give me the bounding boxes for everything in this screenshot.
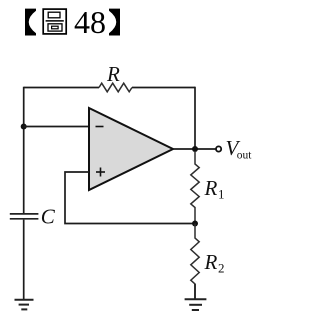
svg-text:R: R [106,62,120,86]
resistor R1 [191,151,199,224]
resistor R [99,83,132,92]
wire inverting input [24,126,89,128]
wire output [173,148,216,150]
wire top right horizontal [132,87,195,89]
node dot inverting input [21,124,27,130]
resistor R2 [191,224,199,299]
capacitor C plates [10,214,39,219]
node dot output [192,146,198,152]
terminal Vout [216,146,221,151]
svg-text:2: 2 [218,261,225,276]
wire top left horizontal [24,87,99,89]
title bracket 】 [109,9,120,36]
svg-text:1: 1 [218,187,225,202]
svg-text:48: 48 [74,4,106,40]
svg-text:out: out [237,150,253,162]
wire right vertical to output node [194,87,196,150]
op-amp plus sign [96,168,105,177]
title glyph 圖 [43,9,66,34]
op-amp U1 [89,108,173,190]
wire noninverting input [65,172,195,224]
ground left [15,300,34,310]
wire R2 to ground [194,284,196,299]
title bracket 【 [25,9,36,36]
svg-text:R: R [204,250,218,274]
svg-text:C: C [41,205,56,229]
wire left vertical lower [23,220,25,299]
svg-text:R: R [204,176,218,200]
wire left vertical upper [23,87,25,214]
ground right [185,299,207,310]
node dot feedback [192,221,198,227]
op-amp minus sign [96,126,104,128]
